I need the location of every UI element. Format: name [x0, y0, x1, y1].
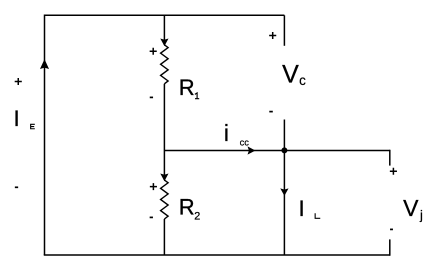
plus sign R2: [150, 183, 157, 190]
wire middle branch center: [163, 84, 165, 180]
resistor R1: [161, 45, 169, 84]
arrowhead IE up (left wire): [41, 60, 48, 68]
wire left: [44, 15, 46, 255]
label IE : subscript E: [30, 124, 35, 129]
arrowhead down above R1: [161, 39, 167, 45]
minus sign R2: [150, 216, 153, 218]
minus sign Vc: [269, 111, 273, 113]
svg-text:V: V: [403, 195, 419, 221]
svg-text:2: 2: [194, 210, 200, 222]
svg-text:R: R: [179, 195, 195, 220]
wire middle branch top: [163, 15, 165, 45]
plus sign Vc: [269, 32, 276, 39]
svg-text:i: i: [224, 120, 229, 146]
arrowhead down above R2: [161, 174, 167, 180]
wire top: [45, 14, 285, 16]
wire Vc branch top segment: [283, 15, 285, 46]
arrowhead IL down: [281, 189, 287, 195]
plus sign Vj: [390, 168, 397, 175]
label IL : subscript L: [315, 213, 321, 219]
minus sign Vj: [390, 228, 393, 230]
label R1 : subscript 1: [195, 93, 199, 99]
resistor R2: [161, 180, 169, 219]
junction dot: [282, 148, 287, 153]
wire middle branch bottom: [163, 219, 165, 255]
wire Vc / IL branch lower segment: [283, 120, 285, 256]
svg-text:I: I: [14, 106, 20, 131]
svg-text:R: R: [179, 75, 195, 100]
plus sign R1: [150, 48, 157, 55]
svg-text:V: V: [282, 60, 299, 88]
svg-text:cc: cc: [240, 138, 250, 148]
arrowhead icc right: [248, 147, 254, 153]
wire Vj branch top segment: [389, 150, 391, 166]
svg-text:c: c: [299, 73, 306, 88]
minus sign R1: [150, 96, 153, 98]
wire bottom: [44, 254, 390, 256]
minus sign IE: [15, 186, 18, 188]
plus sign IE: [15, 78, 22, 85]
wire Vj branch bottom segment: [389, 239, 391, 255]
wire i_cc horizontal: [164, 150, 389, 152]
svg-text:j: j: [419, 208, 423, 223]
svg-text:I: I: [299, 196, 305, 221]
